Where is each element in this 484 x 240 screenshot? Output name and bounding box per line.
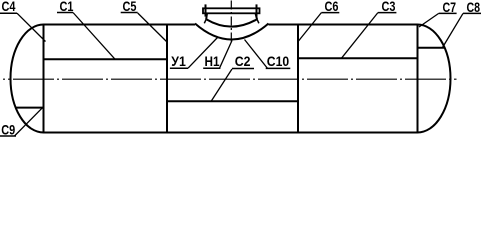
svg-text:С5: С5: [123, 0, 137, 14]
svg-text:С4: С4: [2, 0, 16, 15]
svg-text:С1: С1: [60, 0, 74, 14]
svg-text:С6: С6: [325, 0, 339, 14]
svg-text:С10: С10: [267, 53, 289, 69]
svg-text:С9: С9: [1, 122, 15, 138]
svg-text:С8: С8: [467, 0, 481, 15]
svg-text:Н1: Н1: [205, 53, 220, 69]
svg-text:С3: С3: [382, 0, 396, 14]
svg-text:С7: С7: [443, 0, 457, 15]
svg-text:С2: С2: [235, 53, 251, 69]
svg-text:У1: У1: [171, 53, 186, 69]
